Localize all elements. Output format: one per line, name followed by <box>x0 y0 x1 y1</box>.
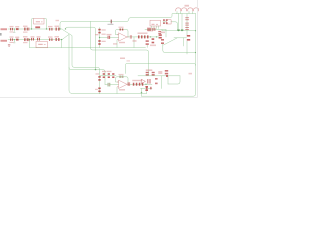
resistor R16 output bottom <box>139 83 141 86</box>
capacitor C13 on rail <box>187 35 190 37</box>
wire relay K2 left leg <box>29 40 31 48</box>
capacitor C9 below <box>161 39 164 41</box>
relay K2 inner marks <box>38 44 43 45</box>
resistor R14 vertical <box>98 88 100 90</box>
relay K1 box <box>34 19 45 25</box>
resistor R2 row1 <box>16 28 19 30</box>
resistor labels x99.5 chain <box>102 29 112 42</box>
power box IC3 <box>150 20 161 26</box>
left pin tick row1 <box>0 33 2 36</box>
wire top connector bus y13.5 <box>177 13 196 15</box>
wire bottom cluster y88.5 <box>141 88 153 90</box>
labels bottom input network <box>96 71 112 75</box>
wire opamp1 output <box>128 36 159 38</box>
wire power comp leads <box>163 22 178 30</box>
wire bottom right corner <box>168 76 180 84</box>
wire rail y47.5 <box>30 47 146 49</box>
wire box K1 pins <box>152 26 159 29</box>
capacitor C5 row2 <box>56 38 57 41</box>
component value texts left block <box>10 26 60 44</box>
capacitor C8 rail <box>159 34 162 36</box>
resistor R13 vertical <box>98 76 100 78</box>
left net label SUB_R <box>1 28 8 30</box>
label left of chain bottom <box>95 89 98 90</box>
electrolytic cap C11 <box>185 17 189 30</box>
capacitor series input op2 <box>107 83 110 86</box>
wire output drop to y96.2 <box>141 89 143 97</box>
wire connector legs <box>177 12 193 14</box>
connector label text <box>185 5 190 7</box>
wire opamp1 feedback loop <box>116 30 129 38</box>
wire supply verticals top right <box>179 14 183 30</box>
label above feedback loop <box>119 27 124 28</box>
component L1 box <box>166 20 171 24</box>
ground symbol left <box>8 44 10 45</box>
capacitor C10 x147 <box>146 40 149 42</box>
wire drop x90.5 to y50 rail <box>91 22 149 76</box>
opamp1 IC2A <box>119 33 128 41</box>
left net label SUB_L <box>1 40 8 42</box>
ground tick row2 <box>13 41 15 44</box>
wire opamp1 plus input bias <box>116 40 118 48</box>
capacitor C2 row1 <box>56 28 57 31</box>
connector JP2 <box>188 8 199 11</box>
resistor on y29.5 <box>147 28 148 31</box>
label left of divider chain top <box>95 34 99 35</box>
capacitor C1 row1 <box>23 28 26 31</box>
opamp2 pin marks <box>117 82 128 88</box>
resistor R3 under relay <box>35 26 40 28</box>
labels above output resistors <box>138 33 148 34</box>
capacitor C14 shunt bottom <box>145 86 148 88</box>
resistor R6 row2 <box>16 39 19 41</box>
wire cap drop x147 <box>146 45 148 48</box>
opamp1 pin marks <box>117 34 128 40</box>
wire opamp1 feedback drop <box>133 37 135 48</box>
wire opamp1 minus input <box>100 36 119 38</box>
junction dots <box>14 28 196 93</box>
text right <box>158 71 162 74</box>
capacitor C6 series input <box>107 36 110 39</box>
wire vertical through caps x187 <box>186 14 188 36</box>
wire rail y52.5 <box>163 44 196 53</box>
vertical cap right of cluster <box>155 78 158 80</box>
capacitor on output junction <box>130 35 132 38</box>
comp top right of cluster <box>165 70 168 72</box>
wire row2 drop to y47.5 <box>61 40 63 48</box>
resistor horizontal y88.5 <box>146 87 148 90</box>
wire power rail y37.8 <box>174 37 187 39</box>
label under plus input <box>113 43 117 44</box>
wire power box row y29.5 <box>145 29 166 31</box>
connector JP1 <box>176 8 187 11</box>
relay K2 box <box>36 42 48 48</box>
net label near corner x57 <box>56 20 60 21</box>
wire verticals x162 x166 <box>162 30 166 38</box>
wire diagonal cap to rail <box>164 38 178 45</box>
opamp1 label <box>119 42 125 43</box>
wire row2 diagonal to long bus x69 <box>62 34 100 93</box>
wire relay K1 right leg <box>44 19 47 29</box>
ground tick row1 <box>13 31 15 34</box>
wire bus x69 branch y69.6 <box>69 68 105 76</box>
wire drop x105 to input line <box>104 75 106 84</box>
wire y27 branch <box>66 27 96 69</box>
resistor feedback R17 <box>120 29 121 31</box>
wire row2 left channel <box>8 39 62 41</box>
wire row1 diagonal to bus x72 <box>63 30 100 74</box>
input network caps bottom block <box>103 73 105 75</box>
supply pin glyphs <box>177 29 179 31</box>
sheet frame bottom <box>0 97 197 99</box>
capacitor C7 shunt <box>152 38 155 40</box>
opamp2 IC2B <box>119 80 128 88</box>
wire bottom loop y63.3 <box>125 63 195 73</box>
resistor R12 output <box>144 35 146 38</box>
labels output bottom <box>132 80 142 81</box>
wire opamp2 minus input <box>105 84 119 86</box>
wire bias chain x99.5 top block <box>99 28 101 48</box>
wire bottom rail y93.5 <box>100 92 147 94</box>
opamp2 label <box>119 89 125 90</box>
capacitor C3 row2 <box>23 38 26 41</box>
capacitor C4 row2 <box>37 38 38 41</box>
net label near y63 line <box>120 58 125 60</box>
resistor R1 row1 <box>10 28 11 30</box>
sheet frame right <box>196 0 198 98</box>
wire opamp2 feedback loop <box>116 77 129 85</box>
wire opamp2 output <box>128 83 153 85</box>
net label mark on top wire x111 <box>111 20 112 24</box>
bottom cluster caps above rail <box>146 72 149 73</box>
resistor feedback R18 <box>120 76 121 78</box>
wire relay K1 left leg <box>32 19 34 29</box>
wire opamp2 plus bias <box>116 87 118 93</box>
capacitor on opamp2 out <box>128 82 131 86</box>
resistor R11 output <box>138 35 140 38</box>
wire bottom cluster rail y75.8 <box>138 75 180 77</box>
wire rail y30.7 <box>162 30 196 32</box>
resistor R10 vertical bottom <box>98 40 100 42</box>
wire row1 left channel <box>8 28 62 30</box>
bottom cluster diode/transistor <box>141 79 145 83</box>
wire bottom cluster verticals <box>162 76 169 89</box>
resistor R4 row1 <box>49 28 50 31</box>
wire bias chain x99.5 bottom block <box>99 73 101 94</box>
resistor R15 output bottom <box>133 83 135 86</box>
wire row1 shunt stub <box>13 29 15 42</box>
relay K1 inner marks <box>36 21 40 22</box>
wire bottom block input row <box>100 74 116 76</box>
wire drops from rail <box>184 38 188 54</box>
wire top feed row1 to y21.5 to right <box>60 14 177 30</box>
resistor R5 row2 <box>10 38 11 40</box>
resistor R8 row2 <box>49 38 50 41</box>
resistor R7 row2 <box>31 38 32 41</box>
wire right vertical x195.5 <box>142 14 196 97</box>
text out label <box>189 73 193 75</box>
label above feedback loop op2 <box>119 74 124 75</box>
text below power box <box>161 32 166 33</box>
diode pair x163-167 <box>163 19 165 21</box>
resistor R9 vertical top <box>98 29 100 31</box>
